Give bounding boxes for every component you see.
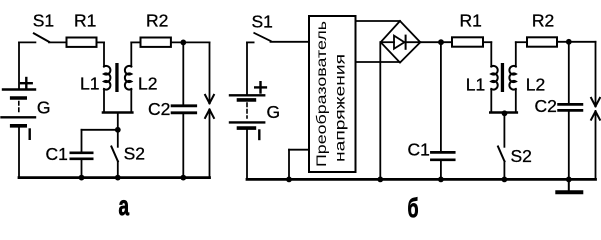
- svg-text:напряжения: напряжения: [332, 54, 348, 162]
- svg-text:R1: R1: [460, 10, 482, 30]
- svg-text:R2: R2: [532, 10, 554, 30]
- svg-text:L1: L1: [466, 75, 485, 95]
- svg-text:L2: L2: [138, 74, 157, 94]
- svg-text:б: б: [408, 193, 419, 223]
- svg-text:S1: S1: [252, 12, 273, 32]
- svg-text:S1: S1: [33, 10, 54, 30]
- svg-text:L2: L2: [526, 75, 545, 95]
- svg-text:C2: C2: [148, 99, 170, 119]
- svg-text:G: G: [267, 102, 281, 122]
- svg-text:а: а: [119, 190, 130, 221]
- svg-text:C1: C1: [408, 139, 430, 159]
- svg-text:G: G: [37, 98, 51, 118]
- svg-text:S2: S2: [511, 146, 532, 166]
- svg-text:Преобразователь: Преобразователь: [313, 21, 329, 167]
- svg-text:R1: R1: [74, 10, 96, 30]
- svg-text:C2: C2: [535, 96, 557, 116]
- svg-text:R2: R2: [146, 10, 168, 30]
- svg-text:C1: C1: [46, 144, 68, 164]
- svg-text:S2: S2: [124, 143, 145, 163]
- svg-text:L1: L1: [80, 74, 99, 94]
